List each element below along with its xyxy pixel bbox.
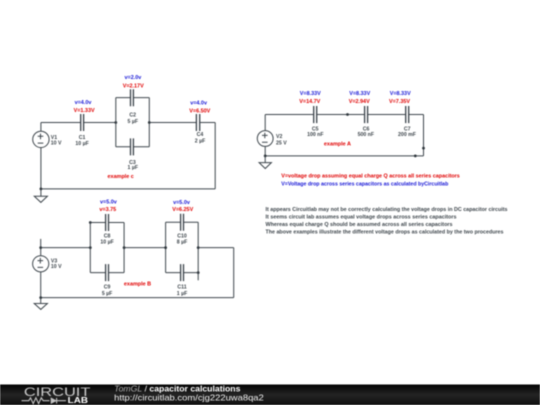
wire box2 bottom edge [166, 272, 199, 274]
svg-text:V=voltage drop assuming equal: V=voltage drop assuming equal charge Q a… [281, 174, 460, 180]
svg-text:Whereas equal charge Q should: Whereas equal charge Q should be assumed… [266, 222, 453, 228]
node dot box1 mid-left [89, 246, 92, 249]
svg-text:It appears Circuitlab may not: It appears Circuitlab may not be correct… [266, 207, 508, 213]
svg-text:It seems circuit lab assumes e: It seems circuit lab assumes equal volta… [266, 215, 457, 221]
wire right edge down [423, 115, 425, 156]
node dot V3 top [39, 246, 42, 249]
svg-text:LAB: LAB [68, 396, 88, 405]
capacitor C7 [406, 106, 409, 123]
svg-text:25 V: 25 V [276, 140, 287, 146]
node dot V2 bottom [264, 155, 267, 158]
wire C5 to C6 [317, 114, 365, 116]
svg-text:1 µF: 1 µF [177, 291, 187, 297]
wire box1 bottom edge [90, 272, 124, 274]
label C5 100 nF [307, 127, 323, 138]
svg-text:500 nF: 500 nF [358, 132, 374, 138]
node dot box1 right [148, 121, 151, 124]
wire box2 right edge [197, 222, 199, 272]
wire right edge down [233, 248, 235, 298]
svg-text:10 µF: 10 µF [100, 240, 113, 246]
capacitor C1 [81, 114, 84, 131]
node dot V1 bottom [40, 188, 43, 191]
wire V3 bottom stem [40, 272, 42, 298]
wire stub below box2 [197, 273, 199, 281]
wire box2 left edge [165, 222, 167, 272]
svg-text:V2: V2 [276, 134, 282, 140]
wire right edge down [214, 123, 216, 189]
capacitor C10 [181, 214, 184, 231]
node dot bottom wire [414, 155, 417, 158]
svg-text:V=Voltage drop across series c: V=Voltage drop across series capacitors … [281, 182, 449, 188]
footer background [0, 385, 540, 405]
svg-text:v=3.75: v=3.75 [99, 207, 116, 213]
svg-text:C4: C4 [197, 132, 204, 138]
ground (example A) [259, 156, 271, 169]
wire V2 top stem [264, 115, 266, 131]
capacitor C5 [314, 106, 317, 123]
node dot box2 mid-right [197, 246, 200, 249]
svg-text:V=6.50V: V=6.50V [189, 109, 210, 115]
svg-text:example c: example c [108, 174, 134, 180]
svg-text:TomGL / capacitor calculations: TomGL / capacitor calculations [114, 385, 241, 394]
wire top left [41, 122, 81, 124]
wire box2 to corner [198, 247, 234, 249]
capacitor C6 [365, 106, 368, 123]
svg-text:C11: C11 [177, 285, 186, 291]
wire box left edge [115, 98, 117, 147]
wire C1 to box [84, 122, 116, 124]
label C2 5 uF [128, 112, 138, 124]
svg-text:v=5.0v: v=5.0v [100, 200, 117, 206]
voltage source V1 [33, 131, 49, 147]
wire box1 right edge [123, 223, 125, 273]
ground (example c) [34, 189, 47, 203]
svg-text:10 µF: 10 µF [75, 141, 88, 147]
svg-text:V=8.33V: V=8.33V [349, 91, 370, 97]
svg-text:V=2.94V: V=2.94V [349, 99, 370, 105]
svg-text:v=5.0v: v=5.0v [173, 200, 190, 206]
wire top to C5 [265, 114, 314, 116]
wire V3 to box1 [41, 247, 91, 249]
label C10 8 uF [177, 233, 187, 245]
label C8 10 uF [100, 233, 113, 245]
wire V1 bottom stem [40, 148, 42, 189]
svg-text:V=8.33V: V=8.33V [390, 91, 411, 97]
svg-text:10 V: 10 V [51, 264, 62, 270]
svg-text:100 nF: 100 nF [307, 132, 323, 138]
node dot box2 mid-left [164, 246, 167, 249]
node dot box1 top-left [89, 221, 92, 224]
svg-text:V=6.25V: V=6.25V [172, 207, 193, 213]
wire bottom [41, 188, 215, 190]
wire C6 to C7 [368, 114, 406, 116]
svg-text:C8: C8 [104, 233, 111, 239]
label V3 10 V [51, 258, 62, 270]
svg-text:200 mF: 200 mF [398, 132, 416, 138]
svg-text:5 µF: 5 µF [102, 291, 112, 297]
label C7 200 mF [398, 127, 416, 138]
wire box2 top edge [166, 221, 199, 223]
label C3 1 uF [128, 160, 138, 171]
svg-text:v=2.0v: v=2.0v [125, 75, 142, 81]
label C11 1 uF [177, 285, 187, 297]
wire box1 left edge [89, 223, 91, 273]
logo resistor-diode squiggle [22, 398, 67, 404]
wire box bottom edge [116, 146, 150, 148]
wire box1 to box2 [124, 247, 166, 249]
svg-text:5 µF: 5 µF [128, 119, 138, 125]
label C9 5 uF [102, 285, 112, 297]
label V2 25 V [276, 134, 287, 146]
wire V1 top stem [40, 123, 42, 132]
capacitor C4 [196, 114, 199, 131]
wire bottom [265, 155, 423, 157]
wire box top edge [116, 97, 150, 99]
voltage source V2 [257, 131, 273, 147]
svg-text:example A: example A [324, 142, 351, 148]
node dot V3 bottom [39, 296, 42, 299]
svg-text:10 V: 10 V [51, 140, 62, 146]
svg-text:example B: example B [124, 282, 151, 288]
svg-text:8 µF: 8 µF [177, 239, 187, 245]
voltage source V3 [33, 256, 49, 272]
capacitor C2 [131, 89, 134, 106]
label C1 10 uF [75, 135, 88, 147]
capacitor C3 [131, 138, 134, 155]
svg-text:2 µF: 2 µF [195, 138, 205, 144]
wire V2 bottom stem [264, 146, 266, 156]
capacitor C8 [106, 214, 109, 231]
wire box1 top edge [90, 222, 124, 224]
label V1 10 V [51, 135, 62, 147]
svg-text:1 µF: 1 µF [128, 165, 138, 171]
ground (example B) [34, 298, 47, 310]
capacitor C9 [106, 264, 109, 281]
svg-text:v=4.0v: v=4.0v [75, 100, 92, 106]
wire bottom [41, 297, 234, 299]
node dot mid top wire [346, 113, 349, 116]
svg-text:C2: C2 [129, 112, 136, 118]
svg-text:C9: C9 [104, 285, 111, 291]
svg-text:http://circuitlab.com/cjg222uw: http://circuitlab.com/cjg222uwa8qa2 [114, 394, 264, 403]
svg-text:v=4.0v: v=4.0v [190, 100, 207, 106]
node dot right edge [422, 147, 425, 150]
svg-text:V=1.33V: V=1.33V [74, 108, 95, 114]
wire box right edge [148, 98, 150, 147]
svg-text:V=14.7V: V=14.7V [299, 99, 320, 105]
svg-text:The above examples illustrate: The above examples illustrate the differ… [266, 230, 504, 236]
node dot box2 bottom-right [197, 271, 200, 274]
node dot box1 left [114, 121, 117, 124]
label C6 500 nF [358, 127, 374, 138]
svg-text:V=2.17V: V=2.17V [123, 84, 144, 90]
wire C7 to corner [409, 114, 424, 116]
wire stub above V3 [40, 239, 42, 256]
wire box to C4 [149, 122, 196, 124]
svg-text:V=8.33V: V=8.33V [300, 91, 321, 97]
svg-text:V=7.35V: V=7.35V [389, 99, 410, 105]
capacitor C11 [181, 264, 184, 281]
label C4 2 uF [195, 132, 205, 144]
node dot box1 mid-right [123, 246, 126, 249]
wire C4 to corner [200, 122, 216, 124]
